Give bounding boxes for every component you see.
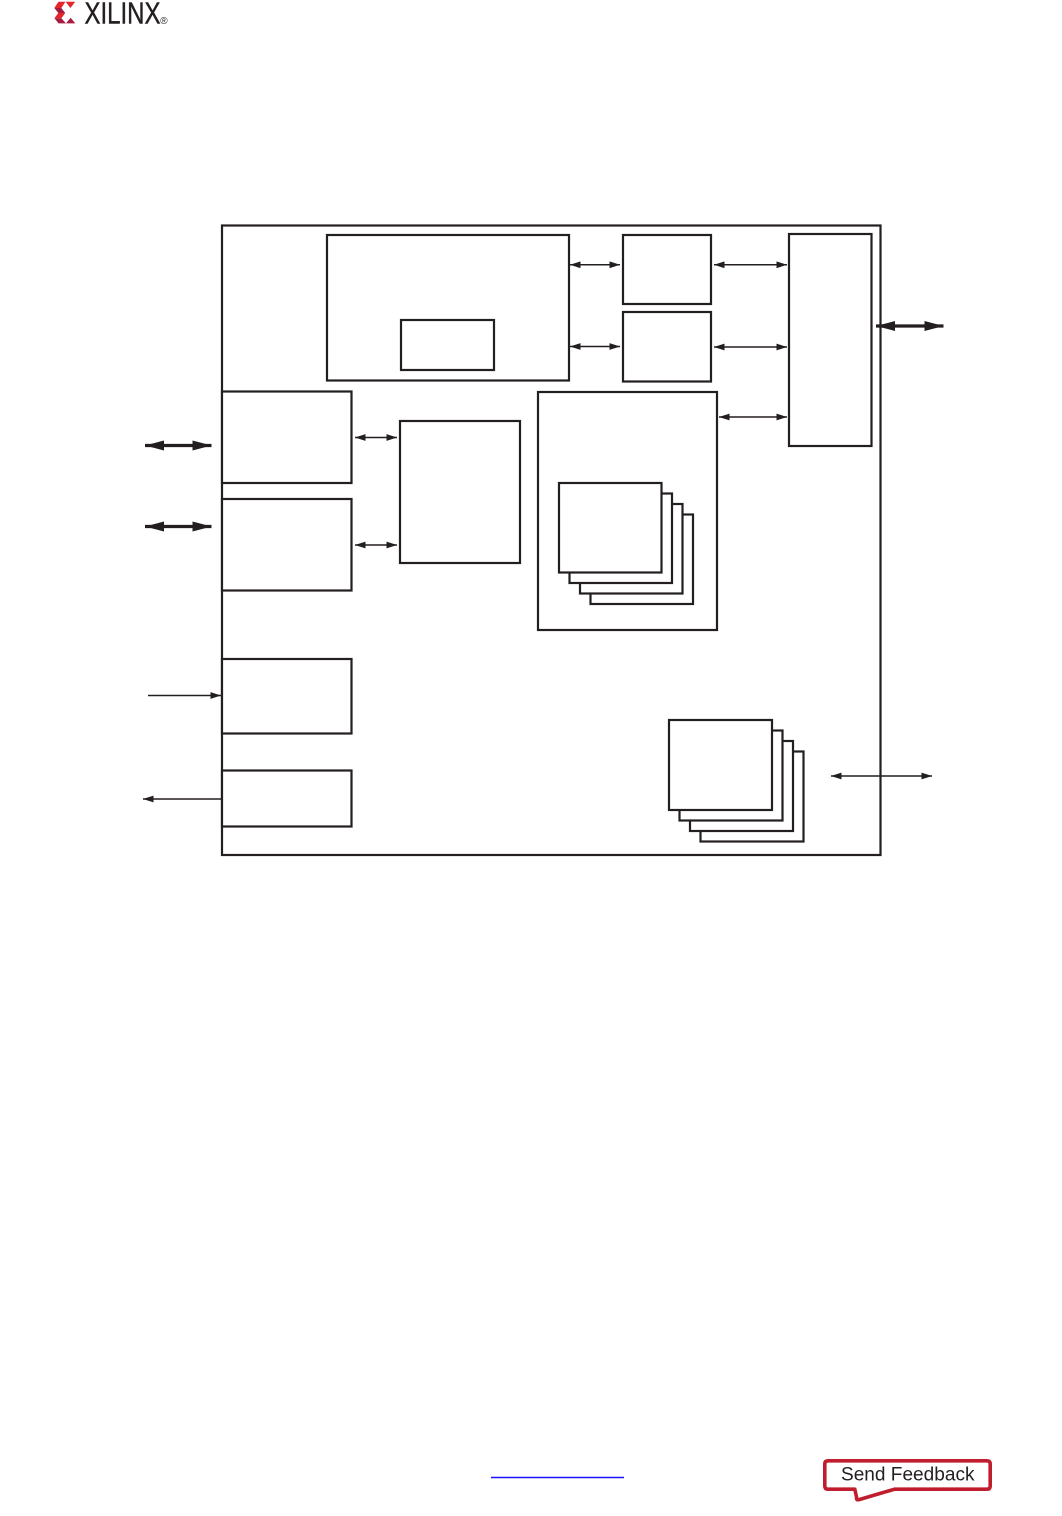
arrow: left 1 to center block (355, 437, 397, 439)
arrow: external to left 2 (thick) (145, 525, 212, 528)
block: sub-block inside top-left (401, 320, 494, 370)
Send Feedback button bubble (825, 1461, 990, 1500)
arrow: bottom-right stack to external (831, 775, 932, 777)
arrow: external to left 1 (thick) (145, 444, 212, 447)
block: left 3 (222, 659, 352, 734)
arrow: external into left 3 (148, 695, 221, 697)
svg-text:XILINX: XILINX (85, 0, 161, 31)
block: center (400, 421, 520, 563)
arrow: upper middle 2 to right tall (714, 346, 787, 348)
block: center-right container (538, 392, 717, 630)
svg-text:®: ® (160, 16, 168, 27)
arrow: left 4 to external (143, 798, 222, 800)
outer block boundary (222, 226, 881, 856)
block: left 1 (222, 392, 352, 484)
Xilinx logo mark (54, 2, 75, 24)
block: top-left large (327, 235, 569, 381)
arrow: top-left block to upper middle 1 (570, 264, 620, 266)
block: upper middle 1 (623, 235, 711, 304)
block: left 4 (222, 771, 352, 827)
block: left 2 (222, 499, 352, 591)
stacked blocks (center) (559, 483, 693, 604)
svg-text:Send Feedback: Send Feedback (841, 1465, 975, 1486)
arrow: upper middle 1 to right tall (714, 264, 787, 266)
arrow: top-left block to upper middle 2 (570, 346, 620, 348)
block: right tall (789, 234, 872, 446)
block: upper middle 2 (623, 312, 711, 382)
arrow: right tall to external (thick) (876, 324, 944, 327)
arrow: center-right container to right tall (719, 416, 787, 418)
arrow: left 2 to center block (355, 544, 397, 546)
blue hyperlink rule (491, 1477, 624, 1479)
stacked blocks (bottom-right) (669, 720, 804, 842)
